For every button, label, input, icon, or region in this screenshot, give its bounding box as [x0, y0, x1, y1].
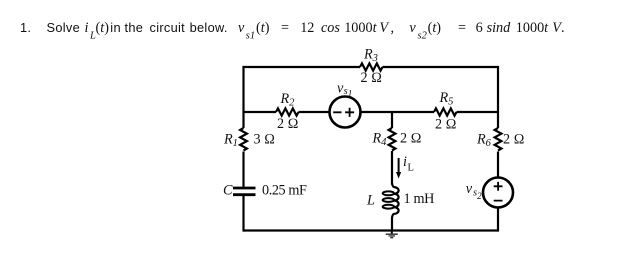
svg-text:12: 12: [300, 20, 314, 36]
svg-text:1 mH: 1 mH: [404, 191, 435, 207]
svg-text:C: C: [223, 183, 233, 199]
svg-text:,: ,: [391, 20, 395, 36]
wire left vertical upper: [242, 66, 244, 128]
svg-text:2 Ω: 2 Ω: [435, 116, 457, 132]
resistor R1: [240, 128, 247, 151]
resistor R5: [434, 108, 457, 115]
wire vs2 to bottom: [497, 208, 499, 232]
svg-text:s1: s1: [344, 86, 353, 99]
svg-text:sind: sind: [487, 20, 512, 36]
wire top left segment: [244, 66, 361, 68]
svg-text:R1: R1: [223, 132, 238, 150]
wire node to R4: [391, 112, 393, 128]
wire R2 to vs1: [299, 111, 330, 113]
voltage source vs2: [483, 178, 513, 208]
title problem text: [20, 20, 565, 42]
wire vs1 to R5: [361, 111, 434, 113]
resistor R6: [495, 128, 502, 151]
capacitor C: [233, 188, 256, 195]
svg-text:the: the: [125, 20, 144, 35]
svg-text:1000t: 1000t: [344, 20, 377, 36]
resistor R2: [276, 108, 299, 115]
wire middle left: [244, 111, 277, 113]
svg-text:in: in: [110, 20, 121, 35]
svg-text:2 Ω: 2 Ω: [277, 116, 299, 132]
svg-text:3 Ω: 3 Ω: [254, 132, 276, 148]
svg-text:L: L: [366, 193, 375, 209]
svg-text:circuit: circuit: [150, 20, 186, 35]
svg-text:(t): (t): [428, 20, 442, 36]
svg-text:R6: R6: [476, 132, 492, 150]
bottom wire: [244, 229, 499, 231]
svg-text:R3: R3: [363, 47, 378, 65]
wire R4 to inductor: [391, 151, 393, 185]
svg-text:i: i: [403, 154, 407, 170]
svg-text:2 Ω: 2 Ω: [361, 70, 383, 86]
wire top right segment: [383, 66, 499, 68]
wire right vertical upper: [497, 66, 499, 128]
svg-text:1000t: 1000t: [516, 20, 549, 36]
svg-text:6: 6: [476, 20, 483, 36]
resistor R4: [389, 128, 396, 151]
voltage source vs1: [330, 97, 361, 128]
svg-text:(t): (t): [256, 20, 270, 36]
ground: [391, 231, 393, 234]
svg-text:v: v: [409, 20, 416, 36]
current arrow iL: [398, 158, 400, 174]
wire capacitor to bottom: [242, 196, 244, 232]
svg-text:2 Ω: 2 Ω: [400, 131, 422, 147]
svg-text:2 Ω: 2 Ω: [503, 132, 525, 148]
svg-text:i: i: [85, 20, 89, 36]
svg-text:below.: below.: [190, 20, 228, 35]
svg-text:cos: cos: [321, 20, 340, 36]
resistor R3: [360, 63, 383, 70]
svg-text:Solve: Solve: [47, 20, 81, 35]
svg-text:R4: R4: [372, 131, 388, 149]
svg-text:s2: s2: [473, 188, 482, 201]
svg-text:(t): (t): [96, 20, 110, 36]
svg-text:=: =: [281, 20, 289, 36]
svg-text:L: L: [408, 163, 414, 174]
svg-text:=: =: [458, 20, 466, 36]
svg-text:R2: R2: [280, 91, 296, 109]
svg-text:s1: s1: [246, 31, 255, 42]
wire R1 to capacitor: [242, 152, 244, 187]
inductor L: [392, 184, 394, 188]
svg-text:V.: V.: [552, 20, 564, 36]
svg-text:V: V: [379, 20, 390, 36]
wire R6 to vs2: [497, 152, 499, 178]
svg-text:R5: R5: [439, 90, 454, 108]
wire R5 to right vertical: [457, 111, 499, 113]
svg-text:v: v: [466, 181, 473, 197]
svg-text:v: v: [238, 20, 245, 36]
svg-text:1.: 1.: [20, 20, 31, 35]
svg-text:s2: s2: [418, 31, 428, 42]
svg-text:0.25 mF: 0.25 mF: [262, 183, 307, 199]
